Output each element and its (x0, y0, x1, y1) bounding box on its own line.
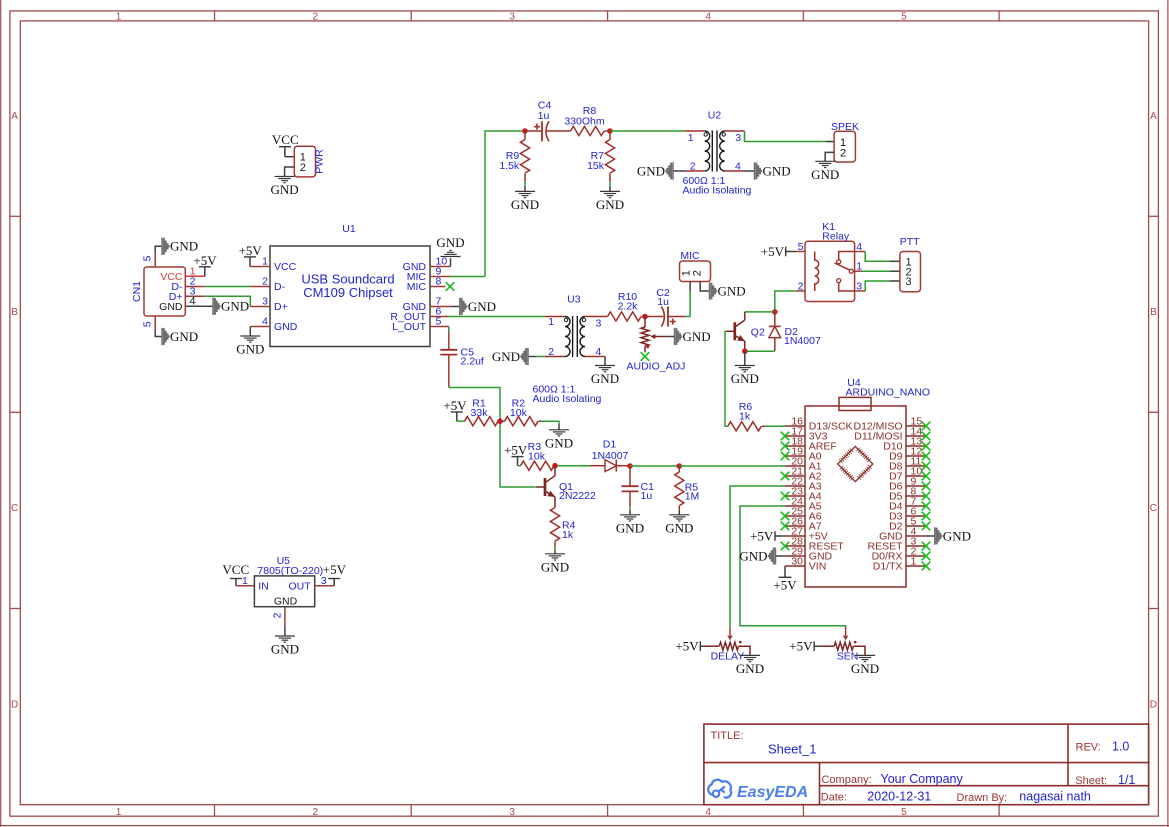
svg-text:1.0: 1.0 (1112, 740, 1129, 754)
svg-text:+5V: +5V (675, 639, 699, 654)
svg-text:D+: D+ (274, 301, 288, 313)
wire R7 to GND (609, 182, 611, 187)
svg-text:A: A (11, 111, 18, 122)
svg-text:GND: GND (596, 197, 624, 212)
svg-text:D-: D- (274, 281, 286, 293)
svg-text:1u: 1u (657, 296, 669, 308)
svg-text:Audio Isolating: Audio Isolating (683, 185, 752, 197)
K1 pin1 wire to PTT pin2 (855, 270, 862, 272)
resistor R8 (571, 126, 605, 135)
wire U5 OUT to +5V (315, 585, 335, 587)
top ruler ticks (214, 11, 216, 21)
U4 right pin numbers (911, 416, 923, 568)
svg-text:U3: U3 (567, 293, 581, 305)
svg-text:GND: GND (591, 371, 619, 386)
wire Q2 base down to R6 (725, 331, 728, 426)
wire C2 to MIC pin1 (685, 291, 690, 317)
diode D1 (605, 460, 616, 472)
resistor R5 (675, 466, 700, 511)
capacitor C2 (645, 307, 685, 327)
svg-text:2: 2 (840, 148, 846, 160)
resistor R4 (550, 508, 575, 547)
node (R5) (677, 463, 683, 469)
svg-text:Sheet:: Sheet: (1075, 775, 1107, 787)
transistor Q1 (536, 466, 596, 508)
wire U3 pin2 to GND flag (545, 356, 565, 358)
ground flag (U3 pin2) (492, 348, 528, 365)
ground flag (AUDIO_ADJ wiper) (675, 328, 711, 345)
EasyEDA logo (708, 780, 731, 798)
svg-text:TITLE:: TITLE: (711, 730, 744, 742)
sheet edge right (1167, 0, 1169, 827)
svg-text:Relay: Relay (822, 231, 850, 243)
node (R1/R2/C5 net) (497, 418, 503, 424)
svg-text:Date:: Date: (821, 792, 847, 804)
svg-text:Sheet_1: Sheet_1 (768, 742, 816, 757)
wire SEN to GND (853, 646, 865, 655)
ground flag (MIC pin2) (710, 282, 746, 299)
svg-text:GND: GND (492, 349, 520, 364)
CN1 pin5 bottom shield wire (154, 316, 156, 331)
svg-text:VIN: VIN (809, 561, 827, 573)
svg-text:GND: GND (468, 299, 496, 314)
svg-text:nagasai nath: nagasai nath (1019, 790, 1091, 804)
svg-text:C: C (1150, 503, 1157, 514)
ground (R9) (511, 191, 539, 212)
ground (PWR) (271, 177, 299, 198)
svg-text:Q2: Q2 (751, 326, 765, 338)
svg-text:1: 1 (688, 132, 694, 144)
power flag +5V (R1) (443, 398, 467, 421)
ground (C1) (616, 515, 644, 536)
svg-text:1: 1 (242, 575, 248, 587)
svg-text:CN1: CN1 (131, 281, 143, 302)
wire U3 pin4 to GND (585, 356, 605, 358)
svg-text:D1/TX: D1/TX (873, 561, 903, 573)
svg-text:PWR: PWR (314, 149, 326, 174)
ground flag (CN1 pin4) (213, 298, 249, 315)
wire SPEK pin2 to GND (825, 152, 834, 161)
svg-text:GND: GND (541, 560, 569, 575)
resistor R2 (500, 397, 541, 425)
sheet edge left (0, 0, 2, 827)
svg-text:A: A (1150, 111, 1157, 122)
svg-text:3: 3 (509, 807, 515, 818)
svg-text:GND: GND (811, 167, 839, 182)
potentiometer AUDIO_ADJ (627, 317, 686, 373)
svg-text:D: D (11, 700, 18, 711)
svg-text:2: 2 (313, 11, 319, 22)
svg-text:GND: GND (763, 163, 791, 178)
svg-text:+5V: +5V (323, 562, 347, 577)
node J1 (522, 128, 528, 134)
wire MIC9 net vertical (485, 131, 525, 277)
U4 left pin names (809, 421, 853, 573)
CN1 pin5 top shield wire (154, 252, 156, 267)
right ruler ticks (1149, 215, 1159, 217)
svg-text:+5V: +5V (773, 577, 797, 592)
ground (SEN) (851, 655, 879, 676)
svg-text:B: B (11, 307, 18, 318)
left ruler ticks (10, 215, 20, 217)
svg-text:GND: GND (943, 528, 971, 543)
svg-text:4: 4 (705, 807, 711, 818)
wire R5 to GND (678, 511, 680, 515)
svg-text:GND: GND (739, 548, 767, 563)
wire U4 A5 to SEN (740, 506, 846, 627)
svg-text:4: 4 (190, 295, 196, 307)
svg-text:GND: GND (274, 595, 298, 607)
svg-text:2.2uf: 2.2uf (461, 356, 484, 368)
svg-text:1N4007: 1N4007 (784, 335, 821, 347)
capacitor C1 (622, 466, 655, 506)
svg-text:+5V: +5V (239, 243, 263, 258)
resistor R1 (457, 397, 500, 425)
wire C1 to GND (629, 506, 631, 511)
ground (U5) (271, 636, 299, 657)
svg-text:GND: GND (221, 299, 249, 314)
svg-text:GND: GND (274, 321, 298, 333)
svg-text:4: 4 (262, 316, 268, 328)
wire R6 to Arduino D13 (765, 425, 785, 427)
connector PTT (900, 236, 921, 292)
power flag +5V (K1 pin5) (761, 244, 786, 259)
svg-text:1k: 1k (562, 529, 574, 541)
wire pot wiper to GND flag (665, 336, 675, 338)
power flag +5V (R3) (504, 443, 528, 466)
node (D1 cathode/C1) (627, 463, 633, 469)
svg-text:1/1: 1/1 (1118, 773, 1135, 787)
wire C1 node to R5 node (630, 465, 679, 467)
node (Q2 emitter) (742, 348, 748, 354)
K1 pin4 wire to PTT pin1 (855, 251, 866, 253)
svg-text:15k: 15k (587, 160, 605, 172)
ground flag (U4 pin29) (776, 555, 786, 557)
wire C5 to Q1 base net (448, 355, 450, 388)
resistor R7 (587, 131, 615, 182)
svg-text:3: 3 (262, 296, 268, 308)
K1 pin3 wire to PTT pin3 (855, 290, 866, 292)
svg-text:30: 30 (791, 556, 803, 568)
ground flag (U2 pin2) (637, 162, 673, 179)
ground (SPEK) (811, 161, 839, 182)
svg-text:2: 2 (300, 162, 306, 174)
K1 pin2 wire down to Q2/D2 node (796, 290, 805, 292)
svg-text:GND: GND (637, 163, 665, 178)
capacitor C4 (525, 121, 571, 141)
svg-text:D: D (1150, 700, 1157, 711)
ground (R4) (541, 554, 569, 575)
svg-text:ARDUINO_NANO: ARDUINO_NANO (846, 386, 931, 398)
transformer U2 (683, 109, 752, 196)
ground flag (U1 pin7) (460, 298, 496, 315)
IC U1 box (270, 223, 430, 347)
svg-text:OUT: OUT (289, 581, 312, 593)
resistor R6 (728, 401, 765, 431)
svg-text:2: 2 (262, 276, 268, 288)
node J2 (607, 128, 613, 134)
power flag VCC (PWR) (272, 132, 299, 157)
svg-text:GND: GND (236, 342, 264, 357)
IC U5 7805 box (254, 555, 323, 608)
svg-text:GND: GND (170, 329, 198, 344)
MIC pin2 lead + GND flag (700, 282, 709, 292)
power flag VCC (U5) (222, 562, 249, 586)
ground (U1 pin4) (236, 336, 264, 357)
CN1 pin2 wire to U1 D- (185, 286, 205, 288)
capacitor C5 (440, 350, 457, 355)
svg-text:SPEK: SPEK (831, 121, 859, 133)
ground flag (CN1 shield bottom) (162, 328, 198, 345)
ground (R7) (596, 191, 624, 212)
resistor R9 (499, 131, 529, 182)
svg-text:1: 1 (116, 807, 122, 818)
svg-text:GND: GND (271, 182, 299, 197)
potentiometer SEN (820, 627, 858, 662)
svg-text:VCC: VCC (272, 132, 299, 147)
svg-text:3: 3 (735, 132, 741, 144)
power flag +5V (DELAY) (675, 639, 700, 654)
svg-text:2: 2 (313, 807, 319, 818)
node (R3/Q1 collector/D1) (552, 463, 558, 469)
power flag +5V (U1 pin1) (239, 243, 263, 267)
wire R2 to GND (541, 421, 560, 424)
svg-text:GND: GND (545, 436, 573, 451)
svg-text:Drawn By:: Drawn By: (957, 792, 1008, 804)
ground (U3 pin4) (591, 366, 619, 387)
svg-text:PTT: PTT (900, 236, 920, 248)
CN1 pin4 wire to GND flag (185, 305, 205, 307)
U4 right pin leads (906, 426, 926, 566)
U4 left pin numbers (791, 416, 803, 568)
bottom ruler ticks (214, 805, 216, 817)
svg-text:1: 1 (116, 11, 122, 22)
svg-text:10k: 10k (510, 407, 528, 419)
svg-text:1M: 1M (685, 490, 700, 502)
svg-text:AUDIO_ADJ: AUDIO_ADJ (627, 361, 686, 373)
svg-text:1: 1 (262, 256, 268, 268)
ground (R5) (665, 515, 693, 536)
svg-text:GND: GND (718, 283, 746, 298)
connector SPEK (831, 121, 859, 162)
wire VCC to U5 IN (236, 585, 255, 587)
U4 left pin leads (785, 426, 805, 566)
MIC pin1 lead (689, 282, 691, 292)
ground flag (U4 pin4 GND) (926, 535, 935, 537)
svg-text:B: B (1150, 307, 1157, 318)
svg-text:Your Company: Your Company (881, 772, 964, 786)
svg-text:U1: U1 (342, 223, 356, 235)
svg-text:5: 5 (436, 316, 442, 328)
wire VCC to PWR pin1 (285, 156, 294, 158)
U4 chip icon (838, 446, 873, 481)
svg-text:REV:: REV: (1076, 742, 1101, 754)
wire DELAY to GND (739, 646, 751, 655)
wire U2 pin2 to GND flag (685, 170, 705, 172)
svg-text:GND: GND (851, 661, 879, 676)
potentiometer DELAY (705, 627, 744, 662)
U4 left no-connects (781, 432, 790, 551)
ground flag (CN1 shield top) (162, 238, 198, 255)
svg-text:GND: GND (736, 661, 764, 676)
power flag +5V (SEN) (789, 639, 814, 654)
svg-text:EasyEDA: EasyEDA (737, 784, 808, 801)
wire node to Q2 collector (745, 311, 775, 313)
no-connect (AUDIO_ADJ pin) (641, 352, 650, 361)
wire R4 to GND (554, 547, 556, 552)
ground (U1 pin10, flipped) (436, 235, 464, 256)
power flag +5V (U4 pin27) (775, 535, 785, 537)
svg-text:U2: U2 (708, 109, 722, 121)
wire U5 GND pin2 down (284, 607, 286, 627)
ground (Q2) (731, 366, 759, 387)
power flag +5V (CN1) (193, 253, 217, 276)
ground (DELAY) (736, 655, 764, 676)
resistor R3 (518, 441, 556, 470)
resistor R10 (585, 291, 645, 321)
svg-text:3: 3 (509, 11, 515, 22)
svg-text:+5V: +5V (761, 244, 785, 259)
svg-text:1: 1 (911, 556, 917, 568)
svg-text:1N4007: 1N4007 (592, 450, 629, 462)
svg-text:330Ohm: 330Ohm (564, 116, 605, 128)
wire node to D1 anode (558, 465, 591, 467)
sheet edge bottom (0, 825, 1169, 827)
svg-text:CM109 Chipset: CM109 Chipset (303, 285, 393, 300)
svg-text:33k: 33k (471, 407, 489, 419)
svg-text:GND: GND (436, 235, 464, 250)
svg-text:GND: GND (665, 521, 693, 536)
transistor Q2 (726, 312, 765, 351)
svg-text:Company:: Company: (822, 774, 872, 786)
svg-text:GND: GND (511, 197, 539, 212)
connector MIC (680, 250, 711, 282)
svg-text:D1: D1 (603, 439, 617, 451)
svg-text:1: 1 (548, 316, 554, 328)
svg-text:3: 3 (596, 317, 602, 329)
U4 right no-connects (922, 422, 931, 571)
svg-text:2: 2 (271, 612, 283, 618)
K1 pin5 wire to +5V flag (796, 251, 805, 253)
connector PWR (294, 146, 325, 177)
svg-text:5: 5 (142, 255, 154, 261)
node (K1 pin2 / D2 / Q2 collector) (772, 309, 778, 315)
svg-text:GND: GND (159, 301, 183, 313)
ground flag (U2 pin4) (755, 162, 791, 179)
svg-text:+5V: +5V (789, 639, 813, 654)
CN1 pin1 wire to +5V (185, 275, 205, 277)
svg-text:+5V: +5V (504, 443, 528, 458)
svg-text:MIC: MIC (680, 250, 700, 262)
CN1 pin3 wire to U1 D+ (185, 295, 205, 297)
svg-text:2020-12-31: 2020-12-31 (867, 790, 931, 804)
svg-text:MIC: MIC (407, 281, 427, 293)
svg-text:+5V: +5V (750, 528, 774, 543)
svg-text:4: 4 (705, 11, 711, 22)
wire U2 pin4 to GND flag (725, 170, 745, 172)
wire PWR pin2 to GND (285, 167, 295, 177)
svg-text:GND: GND (271, 642, 299, 657)
svg-text:1u: 1u (538, 110, 550, 122)
svg-text:GND: GND (616, 521, 644, 536)
wire U4 A3 to DELAY (730, 486, 785, 627)
svg-text:GND: GND (731, 371, 759, 386)
wire R9 to GND (524, 182, 526, 187)
node (R10/C2/pot) (642, 314, 648, 320)
wire U2 pin3 to SPEK pin1 (725, 130, 745, 132)
relay K1 (798, 221, 863, 302)
svg-text:L_OUT: L_OUT (392, 321, 426, 333)
wire D2 to Q2 emitter (745, 350, 775, 352)
svg-text:GND: GND (683, 329, 711, 344)
svg-text:GND: GND (170, 239, 198, 254)
svg-text:IN: IN (258, 581, 269, 593)
svg-text:2N2222: 2N2222 (559, 490, 596, 502)
svg-text:5: 5 (901, 807, 907, 818)
svg-text:VCC: VCC (274, 261, 297, 273)
svg-text:8: 8 (436, 276, 442, 288)
svg-text:1k: 1k (739, 410, 751, 422)
svg-text:Audio Isolating: Audio Isolating (533, 393, 602, 405)
svg-text:2.2k: 2.2k (618, 301, 639, 313)
diode D2 (769, 312, 781, 351)
svg-text:C: C (11, 503, 18, 514)
ground (R2) (545, 430, 573, 451)
svg-text:1.5k: 1.5k (499, 160, 520, 172)
transformer U3 (533, 293, 602, 405)
svg-text:+5V: +5V (193, 253, 217, 268)
U4 right pin names (853, 421, 903, 573)
svg-text:2: 2 (691, 270, 703, 276)
svg-text:5: 5 (901, 11, 907, 22)
power flag +5V (U4 VIN) (784, 566, 786, 577)
svg-text:10k: 10k (528, 450, 546, 462)
wire Q2 emitter to GND (744, 351, 746, 365)
svg-text:+5V: +5V (443, 398, 467, 413)
power flag +5V (U5 OUT) (323, 562, 347, 586)
svg-text:1u: 1u (641, 490, 653, 502)
wire J2 to U2 pin1 (610, 130, 685, 132)
svg-text:3: 3 (906, 276, 912, 288)
svg-text:7805(TO-220): 7805(TO-220) (257, 565, 323, 577)
IC U4 ARDUINO_NANO box (805, 377, 930, 587)
connector CN1 (131, 267, 186, 316)
wire R5 node to Arduino A1 (679, 465, 785, 467)
svg-text:5: 5 (142, 321, 154, 327)
